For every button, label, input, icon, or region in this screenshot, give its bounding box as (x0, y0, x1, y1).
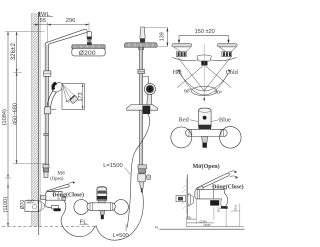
svg-text:(32): (32) (186, 215, 191, 219)
wall escutcheon flare (left view) (39, 200, 45, 211)
svg-text:Mở: Mở (57, 171, 65, 177)
svg-text:60.5: 60.5 (234, 204, 238, 210)
hand shower detail box (62, 84, 85, 110)
pipe nut (front view) (138, 69, 145, 73)
left wall union (172, 44, 192, 57)
svg-text:L=1500: L=1500 (103, 163, 123, 169)
column pipe (front view) (140, 47, 143, 165)
dimension (1100) (3, 178, 9, 226)
supply elbow box (behind wall, left view) (25, 198, 38, 211)
shower arm (45, 29, 86, 45)
floor line (bottom right) (155, 225, 245, 229)
wall (bottom right) (182, 175, 188, 219)
small dim right of spout (231, 203, 240, 226)
svg-text:Ø200: Ø200 (79, 50, 96, 57)
riser pipe (left view) (45, 45, 48, 166)
hand shower handle (left view) (47, 90, 57, 109)
svg-text:Mở(Open): Mở(Open) (193, 163, 220, 170)
dimension 296 (66, 18, 89, 37)
rain head (front view) (124, 43, 157, 47)
Đóng (Close) label (left view) (52, 191, 84, 198)
WL level mark (38, 12, 53, 18)
L=1500 label (103, 163, 131, 175)
wall hatching (left view) (31, 13, 38, 227)
svg-text:173: 173 (78, 93, 84, 102)
dimension (1084) vertical line (2, 32, 9, 178)
centerline (203, 44, 205, 102)
micro dim at outlet block (217, 207, 225, 213)
mixer body arcs (fan diagram) (172, 55, 237, 66)
hose L=500 (96, 193, 143, 241)
svg-text:Ø70: Ø70 (20, 200, 26, 210)
svg-text:45°: 45° (66, 100, 72, 104)
hand shower handle (front view) (147, 94, 152, 108)
top stem (140, 27, 145, 42)
riser pipe joint band (44, 134, 49, 136)
open/close arrows (left view) (68, 181, 76, 184)
wall surface line (39, 13, 40, 235)
rain shower head (side view) (72, 45, 105, 48)
svg-text:(1100): (1100) (3, 197, 9, 213)
svg-text:Cold: Cold (226, 69, 239, 76)
hose L=1500 (127, 114, 150, 228)
front mixer body bar (186, 129, 228, 136)
hose outlet stub (100, 210, 105, 219)
Ø70 label (20, 200, 26, 210)
union nut on riser (left view) (43, 165, 49, 178)
svg-text:Red: Red (179, 117, 190, 124)
mixer body (left view) (41, 192, 62, 201)
dimension 173 (inside box) (78, 84, 84, 109)
bottom dimension stack (186, 199, 244, 227)
svg-text:296: 296 (66, 18, 76, 24)
lever handle (left view) (47, 184, 69, 191)
svg-text:Hot: Hot (173, 70, 182, 76)
wall bracket (front view) (127, 105, 158, 114)
dimension 326±2 / 450~680 vertical line (11, 32, 18, 164)
svg-text:110: 110 (27, 198, 34, 203)
mixer body (front) (87, 200, 115, 210)
left dim extension lines (5, 32, 49, 178)
Hot / Cold labels (173, 69, 239, 76)
hand shower head (left view) (51, 81, 65, 94)
column valve (front view) (138, 165, 151, 193)
svg-text:Đóng(Close): Đóng(Close) (52, 191, 84, 198)
svg-text:(Open): (Open) (50, 177, 64, 182)
svg-text:FL: FL (155, 225, 159, 229)
svg-text:326±2: 326±2 (11, 42, 17, 60)
Đóng(Close) label (212, 183, 244, 190)
svg-text:450~680: 450~680 (12, 103, 18, 125)
dimension 150±20 (178, 29, 230, 43)
svg-text:55: 55 (40, 18, 46, 24)
Ø200 label box (72, 48, 105, 57)
Mở(Open) label (193, 163, 220, 170)
fan arc arrowheads (178, 69, 231, 72)
lever handle (bottom right) (197, 173, 230, 190)
handle cylinder (199, 108, 212, 129)
svg-text:L=500: L=500 (113, 233, 129, 239)
escutcheon circles (74, 200, 128, 215)
Red / Blue labels (179, 117, 231, 124)
outlet block below body (210, 200, 219, 205)
detail box shower head profile (66, 95, 78, 104)
mixer body (bottom right side view) (195, 186, 225, 199)
right wall union (217, 44, 237, 57)
slider clamp (44, 71, 51, 77)
open arrow (229, 171, 238, 179)
90° labels (183, 87, 222, 97)
front mixer outlet (202, 137, 208, 148)
dimension 139 (145, 28, 169, 47)
svg-text:Blue: Blue (219, 117, 231, 124)
hand shower hanger rod (143, 77, 149, 85)
L=500 label (113, 224, 129, 239)
in-wall supply stub (176, 196, 186, 202)
FL label and floor line (left) (2, 219, 96, 226)
svg-text:FL: FL (80, 219, 88, 225)
hand shower holder (left view) (44, 106, 56, 113)
ball joint / head mount (84, 29, 92, 45)
front mixer escutcheons (171, 127, 241, 149)
wall escutcheon (bottom right) (188, 193, 194, 206)
dimension 55 (33, 18, 89, 43)
Mở (Open) label (left view) (50, 171, 65, 183)
mixer spout (left view) (45, 200, 61, 211)
hose fitting + hose (left view) (61, 197, 96, 237)
collar under head (front view) (139, 47, 144, 49)
svg-text:150 ±20: 150 ±20 (195, 29, 215, 35)
svg-text:139: 139 (160, 32, 166, 41)
svg-text:29.5: 29.5 (217, 207, 221, 213)
handle knob (97, 187, 107, 201)
base ellipse (191, 86, 217, 101)
spout (bottom right) (221, 194, 228, 209)
svg-text:(1084): (1084) (2, 109, 8, 125)
fan swing lines (177, 57, 232, 95)
hand shower head (front view) (144, 83, 155, 94)
svg-text:(309): (309) (204, 223, 211, 227)
